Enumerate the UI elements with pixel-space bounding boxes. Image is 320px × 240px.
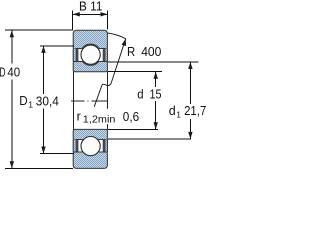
d1 arrow top bbox=[188, 62, 192, 69]
d arrow top bbox=[154, 72, 158, 79]
seal left upper bbox=[76, 49, 79, 63]
svg-text:21,7: 21,7 bbox=[184, 104, 206, 118]
d1 extension line top bbox=[108, 61, 198, 63]
inner ring upper section bbox=[73, 62, 107, 72]
B arrow right bbox=[101, 12, 108, 16]
d extension line top bbox=[108, 71, 162, 73]
R400 arrowhead bbox=[122, 39, 127, 46]
svg-text:1: 1 bbox=[176, 109, 181, 119]
R400 radius line with jog bbox=[94, 39, 126, 107]
svg-text:1: 1 bbox=[28, 99, 33, 109]
right face line bbox=[106, 72, 108, 130]
R400 arc extension line bbox=[108, 33, 126, 39]
outer ring seal lip right upper bbox=[106, 49, 108, 62]
D extension line bottom bbox=[5, 167, 73, 169]
svg-text:d: d bbox=[169, 104, 176, 118]
outer ring seal lip right lower bbox=[106, 140, 108, 153]
outer ring seal lip left lower bbox=[73, 140, 76, 153]
svg-text:30,4: 30,4 bbox=[36, 94, 59, 108]
D arrow bottom bbox=[10, 161, 14, 168]
svg-text:0,6: 0,6 bbox=[123, 110, 139, 124]
svg-text:15: 15 bbox=[150, 88, 162, 102]
seal right upper bbox=[103, 49, 106, 63]
svg-text:d: d bbox=[137, 88, 143, 102]
text backing bbox=[82, 109, 117, 124]
svg-text:R: R bbox=[127, 45, 135, 59]
d dimension line bbox=[155, 72, 157, 130]
D extension line top bbox=[5, 29, 73, 31]
svg-text:40: 40 bbox=[7, 66, 20, 80]
D1 extension line bottom bbox=[40, 153, 74, 155]
d1 arrow bottom bbox=[188, 132, 192, 139]
D1 extension line top bbox=[40, 45, 74, 47]
B dimension line bbox=[73, 13, 108, 15]
svg-text:D: D bbox=[19, 94, 27, 108]
svg-text:r: r bbox=[77, 109, 81, 123]
ball upper bbox=[81, 45, 100, 64]
svg-text:B 11: B 11 bbox=[79, 0, 102, 14]
ball lower bbox=[81, 137, 100, 156]
D dimension line bbox=[11, 30, 13, 168]
d1 dimension line bbox=[189, 62, 191, 139]
D1 arrow bottom bbox=[41, 147, 45, 154]
svg-text:400: 400 bbox=[141, 45, 161, 59]
B arrow left bbox=[73, 12, 80, 16]
outer ring lower section bbox=[73, 147, 107, 168]
D arrow top bbox=[10, 30, 14, 37]
seal right lower bbox=[103, 140, 106, 153]
B extension line left bbox=[72, 10, 74, 29]
outer ring upper section bbox=[73, 30, 107, 48]
seal left lower bbox=[76, 140, 79, 153]
left face line bbox=[72, 72, 74, 130]
D1 arrow top bbox=[41, 46, 45, 53]
inner ring lower section bbox=[73, 129, 107, 143]
centerline axis bbox=[71, 100, 108, 102]
d extension line bottom bbox=[108, 128, 158, 130]
D1 dimension line bbox=[43, 46, 45, 154]
B extension line right bbox=[107, 10, 109, 29]
d arrow bottom bbox=[154, 122, 158, 129]
outer ring seal lip left upper bbox=[73, 49, 76, 62]
d1 extension line bottom bbox=[108, 138, 191, 140]
svg-text:D: D bbox=[0, 66, 6, 80]
svg-text:1,2min: 1,2min bbox=[83, 114, 116, 126]
